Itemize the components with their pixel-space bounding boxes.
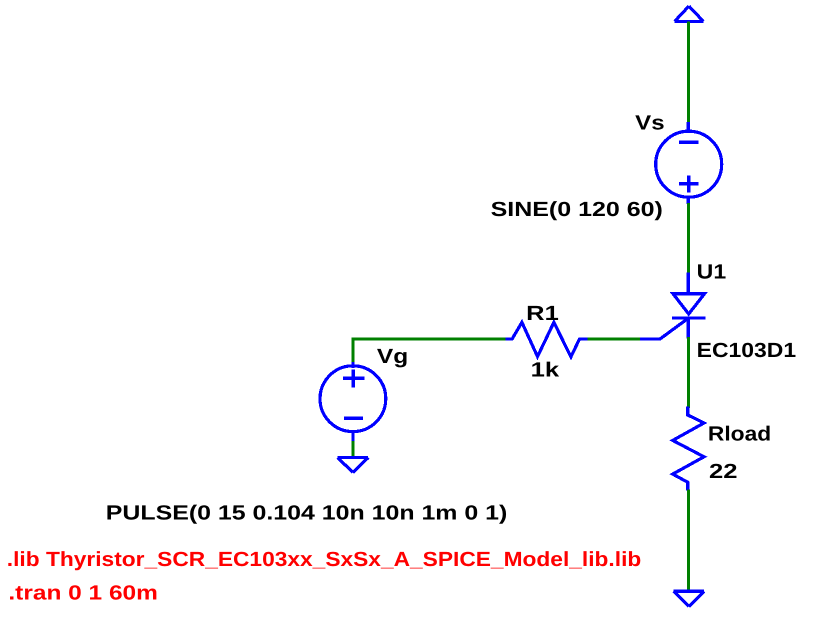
- wire Vg to ground: [351, 441, 354, 459]
- svg-text:SINE(0 120 60): SINE(0 120 60): [491, 198, 663, 221]
- svg-text:Rload: Rload: [708, 423, 771, 446]
- svg-text:Vg: Vg: [377, 345, 408, 368]
- svg-text:1k: 1k: [531, 358, 560, 381]
- ground (bottom right): [674, 591, 705, 606]
- resistor R1: [506, 322, 588, 357]
- wire U1 down to Rload: [687, 337, 690, 408]
- voltage source Vg: [320, 362, 386, 441]
- node flag top (up triangle): [675, 6, 704, 21]
- resistor Rload: [673, 407, 704, 491]
- wire R1 to gate lead: [587, 338, 640, 341]
- thyristor U1 (SCR): [640, 273, 706, 340]
- svg-text:EC103D1: EC103D1: [697, 339, 796, 362]
- svg-text:Vs: Vs: [635, 112, 664, 135]
- wire gate horizontal (Vg to R1): [353, 338, 506, 341]
- ground (under Vg): [338, 458, 369, 473]
- wire Rload to ground: [687, 490, 690, 592]
- svg-text:.tran 0 1 60m: .tran 0 1 60m: [8, 581, 158, 604]
- wire Vs to U1: [687, 203, 690, 274]
- svg-text:PULSE(0 15 0.104 10n 10n 1m 0: PULSE(0 15 0.104 10n 10n 1m 0 1): [106, 502, 508, 525]
- voltage source Vs: [656, 122, 722, 204]
- wire Vg vertical: [351, 338, 354, 364]
- svg-text:U1: U1: [697, 261, 727, 284]
- svg-text:R1: R1: [526, 302, 559, 325]
- svg-text:.lib Thyristor_SCR_EC103xx_SxS: .lib Thyristor_SCR_EC103xx_SxSx_A_SPICE_…: [7, 548, 642, 571]
- svg-text:22: 22: [709, 460, 738, 483]
- wire top rail above Vs: [687, 22, 690, 124]
